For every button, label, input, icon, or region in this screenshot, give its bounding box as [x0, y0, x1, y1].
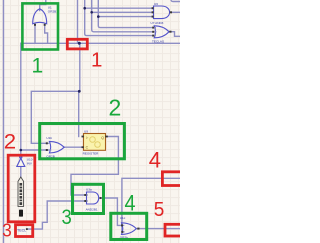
svg-text:OR2B1: OR2B1 — [48, 9, 58, 13]
svg-text:U3a: U3a — [86, 188, 92, 192]
svg-text:2: 2 — [109, 95, 122, 121]
svg-text:3: 3 — [2, 220, 12, 241]
svg-text:1: 1 — [91, 49, 102, 72]
svg-text:U1b: U1b — [46, 136, 52, 140]
svg-text:Q: Q — [101, 136, 104, 140]
svg-text:4: 4 — [125, 192, 136, 216]
svg-text:REGISTER: REGISTER — [83, 152, 100, 156]
svg-text:U9: U9 — [84, 130, 88, 134]
svg-text:TECL: TECL — [17, 228, 26, 232]
svg-text:5: 5 — [154, 199, 165, 222]
svg-text:2: 2 — [4, 129, 16, 153]
svg-text:AND2B1: AND2B1 — [86, 207, 98, 211]
svg-text:3: 3 — [62, 206, 72, 230]
svg-text:TECLAS: TECLAS — [152, 39, 164, 43]
svg-text:INV: INV — [27, 161, 33, 165]
svg-text:U1c: U1c — [120, 216, 126, 220]
svg-text:U6: U6 — [154, 2, 158, 6]
svg-text:1: 1 — [32, 55, 44, 78]
svg-text:4: 4 — [149, 148, 161, 173]
svg-text:U7 AND3: U7 AND3 — [151, 21, 164, 25]
